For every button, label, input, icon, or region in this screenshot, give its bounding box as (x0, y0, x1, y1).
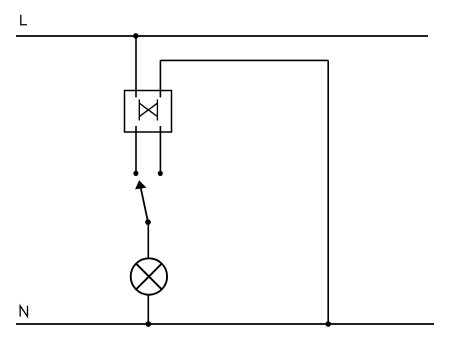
switch S1 arrowhead (135, 180, 146, 189)
wire L rail to relay top-left pin (135, 36, 137, 97)
lamp E1 cross (136, 264, 162, 290)
node junction on N rail left (145, 321, 151, 327)
lamp E1 circle (131, 258, 167, 294)
wire horizontal branch to right (160, 59, 328, 61)
wire N (neutral) rail (16, 323, 434, 325)
node terminal contact left (133, 171, 138, 176)
node switch pivot (145, 219, 151, 225)
net label N (20, 306, 27, 317)
net label L (21, 15, 27, 25)
relay K1 box (125, 91, 172, 133)
wire relay bottom-left pin down (135, 126, 137, 173)
wire relay top-right pin up (159, 60, 161, 97)
switch S1 lever (141, 189, 148, 223)
relay K1 coil bowtie symbol (139, 99, 157, 120)
wire switch pivot to lamp (147, 222, 149, 259)
node terminal contact right (158, 171, 163, 176)
wire relay bottom-right pin down (159, 126, 161, 173)
wire L (phase) rail (16, 35, 428, 37)
wire lamp to N rail (147, 295, 149, 324)
node junction on N rail right (325, 321, 331, 327)
node junction on L rail (133, 33, 139, 39)
wire right branch down to N rail (327, 60, 329, 324)
